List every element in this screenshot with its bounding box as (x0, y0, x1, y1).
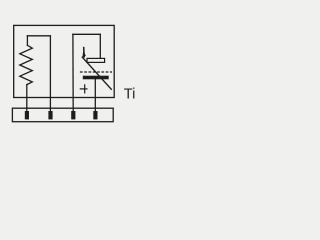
capacitor C top plate (87, 58, 105, 62)
enclosure box (14, 25, 115, 97)
terminal block (12, 108, 113, 122)
wire: left loop top rail (27, 35, 50, 37)
resistor R (zigzag) (20, 45, 33, 84)
terminal pin 1 (25, 111, 29, 119)
wire: branch 3 vertical (72, 34, 74, 112)
terminal pin 3 (71, 111, 75, 119)
terminal pin 2 (48, 111, 52, 119)
capacitor arrow head (82, 51, 86, 58)
wire: resistor bottom stub (26, 85, 28, 112)
wire: capacitor bottom lead (94, 79, 96, 112)
terminal pin 4 (93, 111, 97, 119)
capacitor C bottom plate (polarized bar) (83, 76, 109, 80)
capacitor arrow tip stroke (83, 48, 86, 57)
capacitor mechanical link (dotted) (80, 71, 112, 73)
wire: capacitor top lead (99, 34, 101, 58)
svg-text:Ti: Ti (124, 86, 136, 102)
wire: branch 2 vertical (49, 36, 51, 112)
wire: right loop top rail (73, 33, 100, 35)
capacitor adjustment arrow shaft (82, 57, 111, 89)
polarity plus sign (80, 84, 88, 93)
wire: resistor top stub (26, 36, 28, 46)
